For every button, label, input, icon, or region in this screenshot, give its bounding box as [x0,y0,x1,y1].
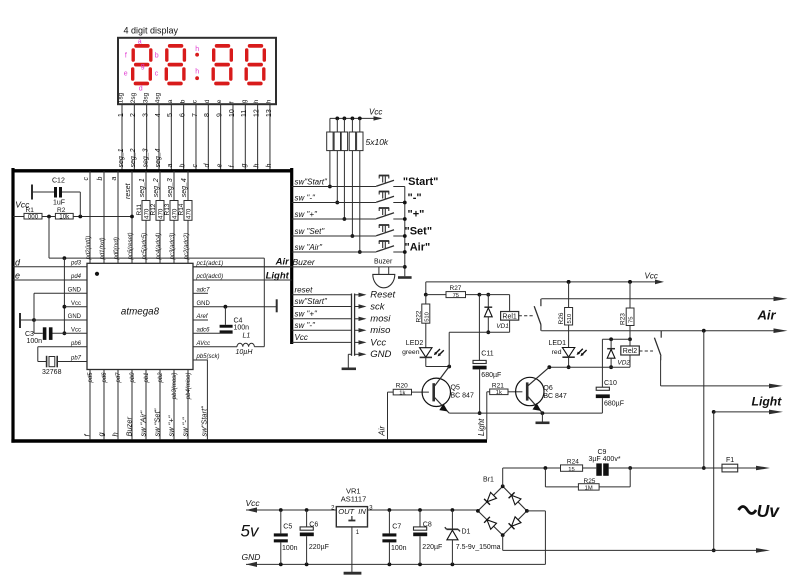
svg-text:7.5-9v_150ma: 7.5-9v_150ma [456,544,501,551]
net d wire [13,257,87,267]
svg-text:pd7: pd7 [116,372,122,384]
svg-text:g: g [241,164,248,168]
svg-text:pb6: pb6 [70,341,82,347]
svg-text:h: h [266,99,273,103]
svg-text:sw "-": sw "-" [295,193,317,202]
resistor R11 470 [136,201,151,221]
capacitor C11 680uF [473,295,502,415]
pullup resistor 5 of 5x10k [357,117,363,254]
svg-text:5v: 5v [241,522,260,541]
svg-text:LED2: LED2 [406,340,424,347]
svg-text:510: 510 [567,314,573,324]
wire Q6 collector [548,366,550,368]
display pin 10 wire/net f [229,101,236,169]
svg-text:Vcc: Vcc [369,107,382,116]
display pin 6 wire/net b [179,99,186,169]
svg-text:sw "Air": sw "Air" [139,410,148,436]
Vcc rail to chip pins [63,258,67,335]
svg-text:b: b [179,164,186,168]
display pin 4 wire/net seg_4 [155,92,162,169]
svg-text:AVcc: AVcc [196,341,211,347]
svg-text:L1: L1 [243,332,251,339]
pin pc1(adc1) wire / net Air [193,257,292,268]
svg-text:100n: 100n [282,545,298,552]
svg-text:R21: R21 [492,382,504,389]
capacitor C7 100n [382,510,406,564]
pullup resistor 1 of 5x10k [327,118,333,188]
svg-text:green: green [402,349,420,356]
svg-text:adc7: adc7 [197,288,211,294]
pin label AVcc [196,341,211,347]
svg-text:4 digit display: 4 digit display [124,26,179,36]
wire IN rail [368,508,478,512]
svg-text:220µF: 220µF [309,544,329,551]
svg-text:1k: 1k [496,390,502,396]
Vcc label psu [246,498,261,508]
svg-text:2sg: 2sg [130,92,137,103]
svg-text:f: f [229,101,236,103]
diode VD2 [607,339,630,369]
svg-text:Buzer: Buzer [374,259,393,266]
svg-text:seg_1: seg_1 [139,178,146,197]
capacitor C10 680uF [596,339,624,413]
svg-text:C12: C12 [52,178,65,185]
wire Vcc from border [13,216,24,218]
net Air base wire [377,392,387,439]
svg-text:d: d [139,85,143,92]
Rel1 contact [534,299,541,331]
svg-text:6: 6 [179,113,186,117]
svg-text:R22: R22 [415,310,422,322]
svg-text:pb7: pb7 [70,355,82,361]
svg-text:b: b [155,52,159,59]
Vcc net label [15,200,30,210]
vertical AC feed [702,331,706,470]
wire bar-C12 [32,191,54,193]
display pin 1 wire/net seg_1 [118,92,125,169]
svg-text:sw "+": sw "+" [295,210,319,219]
svg-text:sw "-": sw "-" [181,417,190,436]
svg-text:Br1: Br1 [483,477,494,484]
svg-text:f: f [125,52,127,59]
label "Start" [403,176,439,188]
svg-text:"Start": "Start" [403,176,439,188]
wire GND2 to chip [34,314,87,320]
svg-text:pd0(rxd): pd0(rxd) [114,237,120,260]
svg-text:sw "-": sw "-" [295,321,317,330]
svg-text:100n: 100n [234,325,250,332]
capacitor C5 100n [274,510,298,564]
display pin 12 wire/net h [253,99,260,169]
pin label pb7 [70,355,82,361]
svg-text:pc3(adc3): pc3(adc3) [170,233,176,261]
svg-text:h: h [266,164,273,168]
svg-text:Vcc: Vcc [370,337,386,348]
capacitor C3 100n [25,327,53,345]
pin GND wire and bar [193,299,277,312]
svg-text:sw "Air": sw "Air" [295,243,324,252]
wire LED2 to collector node [426,357,451,368]
transistor Q5 BC847 [422,367,474,414]
svg-text:12: 12 [253,109,260,117]
node C line [602,337,630,341]
pin label pd3 [70,261,82,267]
capacitor C6 220uF [300,510,329,564]
svg-text:C9: C9 [598,449,607,456]
capacitor C8 220uF [413,510,442,564]
net Buzer wire [193,257,405,267]
transistor Q6 BC847 [516,367,567,413]
label 5v [241,522,260,541]
ISP signal sck [292,297,386,312]
display module box [118,38,276,104]
svg-text:Vcc: Vcc [295,333,308,342]
inductor L1 10uH [193,332,264,356]
svg-text:Uv: Uv [757,501,781,521]
segment label h lower [195,68,199,75]
svg-text:"Set": "Set" [405,225,433,237]
segment label f [125,52,127,59]
svg-text:VD2: VD2 [617,360,630,367]
segment label a [138,39,142,46]
svg-text:Buzer: Buzer [293,257,316,267]
Light switched line [661,360,783,388]
svg-text:pd6: pd6 [102,372,108,384]
svg-text:1M: 1M [585,486,593,492]
wire Br1 right to gnd [527,511,546,565]
GND label psu [242,552,261,562]
gnd rail emitters [449,411,602,415]
ISP signal miso [292,321,391,336]
svg-text:Buzer: Buzer [125,416,134,436]
svg-text:GND: GND [68,288,82,294]
resistor R26 510 [558,280,573,348]
svg-text:pc1(adc1): pc1(adc1) [196,261,224,267]
svg-text:pd4: pd4 [70,274,82,280]
svg-text:32768: 32768 [42,369,62,376]
label 5x10k [366,137,389,147]
svg-text:10k: 10k [59,213,70,220]
snubber line [503,466,770,471]
svg-text:10µH: 10µH [236,349,254,356]
relay coil Rel1 [501,295,519,333]
wire seg_4 / pin pc2(adc2) [181,171,190,263]
resistor R20 1k [388,383,429,397]
svg-text:R27: R27 [450,285,462,292]
svg-text:C8: C8 [423,521,432,528]
bridge Br1 [476,477,529,537]
wire sw "+" / pin pb3(mosi) [167,370,178,440]
svg-text:g: g [141,63,145,70]
svg-text:sw"Start": sw"Start" [295,297,329,306]
svg-text:Light: Light [266,271,290,282]
svg-text:GND: GND [242,552,261,562]
svg-text:Air: Air [275,257,291,268]
svg-text:8: 8 [204,113,211,117]
svg-text:R25: R25 [584,478,596,485]
svg-text:pd5: pd5 [88,372,94,384]
svg-text:sck: sck [370,301,386,312]
svg-text:100n: 100n [27,338,43,345]
gnd loop rail [33,293,35,333]
resistor R21 1k [487,382,523,396]
svg-text:BC 847: BC 847 [451,392,474,399]
svg-text:Air: Air [377,426,386,437]
svg-text:h: h [195,68,199,75]
svg-text:pc6(reset): pc6(reset) [128,232,134,260]
Rel1 dashed link [519,315,534,317]
svg-text:atmega8: atmega8 [121,306,160,317]
resistor R14 470 [178,201,193,221]
svg-text:pc2(adc2): pc2(adc2) [184,233,190,261]
wire seg_1 / pin pc5(adc5) [139,171,148,263]
switch SW1 "Start" [292,176,405,187]
svg-text:red: red [552,349,562,356]
wire h / pin pd7 [111,370,122,440]
svg-text:h: h [253,99,260,103]
resistor R12 470 [150,201,165,221]
pin label pb5(sck) [196,354,220,360]
wire bar to gnd rail [20,318,36,322]
svg-text:220µF: 220µF [422,544,442,551]
svg-text:c: c [155,71,159,78]
label "+" [408,208,425,220]
display pin 7 wire/net c [192,99,199,169]
resistor R13 470 [164,201,179,221]
wire Br1 top to snubber [502,468,504,486]
svg-text:c: c [83,177,90,181]
svg-text:Rel2: Rel2 [623,348,638,355]
svg-text:miso: miso [370,325,390,336]
pullup resistor 4 of 5x10k [349,117,355,238]
svg-text:4sg: 4sg [155,92,162,103]
terminal bar GND left [19,313,21,328]
svg-text:sw"Start": sw"Start" [295,177,329,186]
LED2 green [402,340,444,357]
wire seg_3 / pin pc3(adc3) [167,171,176,263]
svg-text:seg_3: seg_3 [142,148,149,167]
display pin 9 wire/net e [216,99,223,169]
resistor R24 15 [561,459,597,473]
Rel2 dashed link [639,350,653,352]
svg-text:R24: R24 [567,459,579,466]
svg-text:IN: IN [358,507,366,516]
wire AVcc to Vcc feed [263,258,265,347]
pin Aref stub [193,314,209,320]
label "-" [408,192,422,204]
svg-text:5x10k: 5x10k [366,137,389,147]
svg-text:e: e [124,71,128,78]
Vcc feed rail [49,217,264,261]
svg-text:GND: GND [68,314,82,320]
capacitor C9 3uF 400v [589,449,621,476]
svg-text:D1: D1 [462,529,471,536]
Vcc pullup rail [330,107,383,120]
svg-text:100n: 100n [391,545,407,552]
svg-text:R26: R26 [558,312,565,324]
buzzer BZ1 [373,259,395,288]
svg-text:C10: C10 [604,380,617,387]
ISP ground [342,354,356,369]
module border box [11,168,487,443]
svg-text:75: 75 [453,293,459,299]
svg-text:Q6: Q6 [543,385,552,392]
svg-text:Vcc: Vcc [246,498,261,508]
display title [124,26,179,36]
svg-text:pb3(mosi): pb3(mosi) [172,373,178,401]
svg-text:h: h [111,432,120,436]
wire Buzer / pin pb0 [125,370,136,440]
svg-text:pc5(adc5): pc5(adc5) [142,233,148,261]
ISP signal mosi [292,309,392,324]
svg-text:15: 15 [568,467,574,473]
wire seg_2 / pin pc4(adc4) [153,171,162,263]
switch common rail [403,187,407,277]
svg-text:adc6: adc6 [197,328,211,334]
svg-text:Light: Light [752,395,783,409]
svg-text:seg_4: seg_4 [155,148,162,167]
segment label h upper [195,46,199,53]
svg-text:sw "Set": sw "Set" [295,227,326,236]
svg-text:VD1: VD1 [496,323,509,330]
svg-text:d: d [204,99,211,103]
pin adc7 stub [193,288,210,294]
node B [478,293,510,297]
svg-text:pc0(adc0): pc0(adc0) [196,274,224,280]
capacitor C4 100n [220,305,250,333]
svg-text:pd2(int0): pd2(int0) [86,236,92,261]
svg-text:10: 10 [229,109,236,117]
svg-text:sw"Start": sw"Start" [200,406,209,437]
display pin 3 wire/net seg_3 [142,92,149,169]
svg-text:Vcc: Vcc [71,328,81,334]
svg-text:Air: Air [757,308,777,323]
svg-text:F1: F1 [726,457,734,464]
svg-text:3µF 400v*: 3µF 400v* [589,456,621,463]
svg-text:seg_2: seg_2 [130,148,137,167]
svg-text:pb0: pb0 [130,372,136,384]
pin adc6 wire [193,328,233,334]
svg-text:C5: C5 [283,524,292,531]
Air switched line [541,297,787,302]
svg-text:e: e [15,271,20,281]
ground Q6 emitter [536,413,550,423]
vertical Light return [712,412,716,552]
wire LED1 to coil line [567,357,571,369]
svg-text:"+": "+" [408,208,425,220]
svg-text:a: a [138,39,142,46]
pin label pd4 [70,274,82,280]
display pin 11 wire/net g [241,99,248,169]
svg-text:R12: R12 [150,203,157,215]
svg-text:b: b [179,99,186,103]
pullup resistor 2 of 5x10k [334,117,340,205]
resistor R27 75 [426,285,480,299]
svg-text:sw "Set": sw "Set" [153,408,162,436]
svg-text:510: 510 [424,312,430,322]
svg-text:b: b [97,177,104,181]
svg-text:g: g [241,99,248,103]
wire b / pin pd1(txd) [97,171,106,263]
svg-text:R23: R23 [620,313,627,325]
svg-text:R14: R14 [178,203,185,215]
svg-text:Rel1: Rel1 [502,313,517,320]
segment label g [141,63,145,70]
svg-text:1: 1 [118,113,125,117]
svg-text:C4: C4 [234,317,243,324]
wire g / pin pd6 [97,370,108,440]
svg-text:GND: GND [370,349,391,360]
svg-text:1sg: 1sg [118,92,125,103]
colon dots [195,53,199,80]
relay coil Rel2 [621,339,640,367]
svg-text:GND: GND [197,301,211,307]
svg-text:Light: Light [477,418,486,436]
svg-text:seg_2: seg_2 [153,178,160,197]
ISP signal GND [355,349,392,360]
svg-text:pb4(miso): pb4(miso) [186,373,192,401]
segment label e [124,71,128,78]
svg-text:"Air": "Air" [405,241,431,253]
capacitor C12 1uF [52,178,65,207]
svg-text:pd3: pd3 [70,261,82,267]
Vcc rail psu [246,507,336,512]
display pin 13 wire/net h [266,99,273,169]
label "Set" [405,225,433,237]
svg-text:pb1: pb1 [144,373,150,384]
wire c / pin pd2(int0) [83,171,92,263]
pin pc0(adc0) wire / net Light [193,271,292,282]
AC line air bottom [541,328,787,333]
ground switches [398,276,412,279]
svg-text:seg_3: seg_3 [167,178,174,197]
svg-text:5: 5 [167,113,174,117]
7-segment digit 3 [213,46,231,84]
svg-text:Aref: Aref [196,314,209,320]
label "Air" [405,241,431,253]
pullup resistor 3 of 5x10k [341,117,347,221]
label Light output [752,395,783,409]
switch SW5 "Air" [292,241,405,252]
7-segment digit 4 [246,46,264,84]
svg-text:a: a [167,164,174,168]
7-segment digit 2 [166,46,184,84]
svg-text:LED1: LED1 [549,340,567,347]
svg-text:e: e [216,99,223,103]
resistor R23 75 [620,280,635,341]
svg-text:h: h [253,164,260,168]
wire sw "Air" / pin pb1 [139,370,150,440]
label Uv [739,501,781,521]
net Light base wire [477,392,487,440]
ISP signal Reset [292,285,396,300]
switch SW4 "Set" [292,225,405,236]
resistor R22 510 [415,295,430,348]
wire sw "-" / pin pb4(miso) [181,370,192,440]
svg-text:seg_4: seg_4 [181,178,188,197]
svg-text:7: 7 [192,113,199,117]
svg-text:9: 9 [216,113,223,117]
wire R1-R2 [42,215,55,219]
wire sw "Set" / pin pb2 [153,370,164,440]
svg-text:680µF: 680µF [481,372,501,379]
segment label b [155,52,159,59]
svg-text:C3: C3 [25,331,34,338]
svg-text:pc4(adc4): pc4(adc4) [156,233,162,261]
pin label pb6 [70,341,82,347]
svg-text:a: a [167,99,174,103]
wire Vcc1 to chip [64,301,87,307]
